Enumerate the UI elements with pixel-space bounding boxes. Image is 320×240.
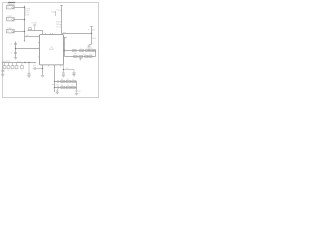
connector J1 — [7, 4, 15, 9]
ground for C2 rail — [14, 58, 18, 60]
svg-text:J1: J1 — [7, 7, 9, 9]
junction C19 — [42, 68, 43, 69]
resistor RN row 1 — [3, 63, 6, 69]
VCC rail tap 2 — [56, 24, 61, 26]
ground under cap chain B — [56, 92, 59, 94]
cap C15 right-bottom — [63, 70, 75, 75]
bus rail — [24, 6, 26, 42]
resistor RN row 3 — [11, 63, 14, 69]
VCC rail tap 1 — [56, 21, 61, 24]
ground chain right — [75, 93, 79, 95]
VCC rail top — [57, 6, 63, 34]
chain2 value labels — [84, 54, 92, 56]
resistor RN row 2 — [7, 63, 10, 69]
wire U1 bottom pin to C19 — [42, 65, 44, 75]
junction J1/bus — [24, 7, 25, 8]
capacitor C17 — [28, 63, 31, 76]
wire J3 to bus — [14, 31, 24, 33]
connector J2 — [7, 16, 15, 21]
polarized cap C18 — [1, 63, 5, 75]
resistor R5 — [73, 50, 77, 52]
svg-text:C19: C19 — [33, 66, 36, 68]
ground under C17 — [27, 76, 31, 78]
svg-text:MCU12: MCU12 — [49, 49, 54, 51]
wire VCC rail to right rail — [62, 33, 92, 35]
connector J3 — [7, 28, 15, 33]
resistor row value labels — [3, 70, 22, 72]
junction chain A — [54, 81, 55, 82]
svg-text:VDD1: VDD1 — [92, 38, 96, 40]
junction rail/C17 — [28, 62, 29, 63]
inductor L2 — [93, 50, 96, 52]
svg-text:C13: C13 — [89, 54, 92, 56]
U1 right pin wire ANT1 — [63, 37, 66, 39]
junction J3/bus — [24, 31, 25, 32]
junction rail/wire — [15, 48, 16, 49]
capacitor C13 — [89, 56, 92, 58]
svg-text:Y1 16M: Y1 16M — [31, 23, 37, 25]
svg-text:C1: C1 — [10, 43, 12, 45]
chain1 value labels — [80, 48, 92, 50]
net stub tap 1 — [25, 8, 31, 11]
capacitor C1 — [10, 43, 17, 45]
wire crystal to U1 top pin — [28, 31, 43, 35]
junction match — [64, 50, 65, 51]
svg-text:1k: 1k — [21, 70, 23, 72]
svg-text:DVD: DVD — [56, 24, 60, 26]
wire U1 pin54 down — [54, 65, 56, 92]
junction chain B — [54, 87, 55, 88]
junction J2/bus — [24, 19, 25, 20]
junction right rail — [91, 33, 92, 34]
net stub tap 3 — [25, 13, 29, 15]
bus arrow end — [24, 40, 26, 42]
capacitor C2 — [10, 52, 17, 54]
resistor R7 — [66, 80, 70, 82]
matching chain wire 1 — [63, 50, 95, 52]
svg-text:VIO: VIO — [56, 27, 59, 29]
bottom rail — [2, 62, 35, 64]
svg-text:3V3: 3V3 — [51, 12, 54, 14]
wire J1 to bus — [14, 7, 24, 9]
title block — [8, 2, 15, 6]
power flag right — [88, 27, 96, 34]
diode D2 — [72, 86, 76, 88]
chain A wire — [55, 81, 77, 83]
wire left cap rail to U1 — [16, 48, 40, 50]
sheet border frame — [3, 3, 99, 98]
svg-text:C2: C2 — [10, 52, 12, 54]
capacitor C12 — [85, 56, 88, 58]
capacitor C11 — [74, 53, 78, 57]
U1 left pin stubs — [38, 43, 40, 58]
svg-text:OUT: OUT — [56, 84, 59, 86]
inductor FB1 on rail — [17, 61, 21, 64]
diode D1 — [72, 80, 76, 82]
U1 top pin stubs — [46, 33, 53, 35]
svg-text:VCC: VCC — [57, 10, 61, 12]
svg-text:TX: TX — [27, 13, 29, 15]
resistor R3 — [21, 63, 24, 69]
inductor L1 — [80, 50, 84, 52]
power stub net label — [51, 11, 56, 16]
chainA value labels — [61, 79, 74, 81]
inductor L3 — [79, 56, 83, 58]
cap below chain B — [56, 89, 58, 92]
ground under U1 pin — [41, 75, 45, 77]
svg-text:AVD: AVD — [56, 21, 60, 24]
capacitor C10 — [90, 50, 93, 52]
wire bus to U1 left pin — [25, 36, 40, 38]
capacitor C9 — [86, 50, 89, 52]
ground under C15 — [72, 75, 76, 77]
chain B wire — [55, 87, 77, 89]
op IC U1 — [40, 35, 64, 65]
rail end arrow — [35, 62, 37, 64]
resistor R9 — [66, 86, 70, 88]
net stub tap 4 — [25, 15, 30, 17]
crystal Y1 — [29, 23, 38, 31]
chainB value labels — [61, 85, 74, 87]
ground under C14 — [62, 75, 66, 77]
junction C14/C15 — [63, 69, 64, 70]
svg-text:3V: 3V — [88, 29, 90, 31]
capacitor C19 series — [33, 66, 43, 70]
svg-text:1k: 1k — [15, 70, 17, 72]
wire J2 to bus — [14, 19, 24, 21]
U1 bottom pin stubs — [49, 65, 61, 66]
ground under C18 — [1, 74, 5, 76]
right vertical net — [64, 38, 66, 57]
vertical joining chains — [95, 51, 97, 57]
svg-text:1k: 1k — [7, 70, 9, 72]
svg-text:SDA: SDA — [27, 8, 30, 11]
svg-text:J2: J2 — [7, 19, 9, 21]
capacitor C21 — [57, 86, 58, 88]
resistor R6 — [61, 80, 65, 83]
vertical joining chains right — [76, 82, 78, 90]
decoupling rail — [15, 42, 17, 58]
svg-text:RX: RX — [27, 15, 29, 17]
svg-text:ANT: ANT — [63, 31, 66, 34]
ground chain2 — [79, 58, 82, 61]
svg-text:SCL: SCL — [27, 11, 30, 13]
svg-text:J3: J3 — [7, 31, 9, 33]
net stub tap 2 — [25, 11, 31, 13]
capacitor C20 — [57, 80, 58, 82]
right rail lower — [91, 34, 93, 45]
capacitor C8 on right rail — [88, 45, 92, 51]
resistor R8 — [61, 86, 65, 88]
svg-text:R6: R6 — [61, 82, 63, 84]
junction rail/C16 — [24, 62, 25, 63]
svg-text:1k: 1k — [11, 70, 13, 72]
VCC rail tap 3 — [56, 27, 61, 29]
svg-text:+: + — [4, 70, 5, 72]
svg-text:C22: C22 — [78, 91, 81, 93]
svg-text:U1: U1 — [51, 47, 53, 49]
net label bottom — [52, 84, 54, 86]
cap below U1 right corner — [62, 65, 69, 75]
resistor R2 — [15, 63, 18, 69]
transistor Q1 marks — [76, 89, 81, 93]
matching chain wire 2 — [65, 56, 96, 58]
svg-text:VD: VD — [92, 30, 95, 32]
U1 right pin stubs — [63, 43, 64, 45]
